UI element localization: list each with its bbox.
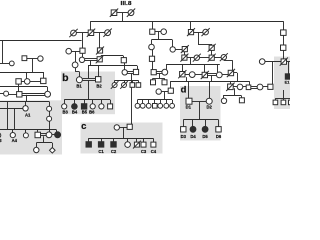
male 152 bbox=[149, 56, 154, 61]
sibship line a bottom bbox=[0, 129, 56, 131]
affected female a bbox=[55, 132, 61, 138]
couple line edge bbox=[0, 63, 10, 65]
female D2 bbox=[206, 98, 212, 104]
couple line row81 b bbox=[30, 81, 41, 83]
drop C2 bbox=[113, 138, 115, 142]
drop 224 bbox=[223, 96, 225, 98]
paternal stack link bbox=[18, 84, 20, 92]
svg-text:B6: B6 bbox=[89, 110, 95, 115]
male ancestor left bbox=[22, 56, 27, 61]
consanguineous couple 204=219 bbox=[208, 74, 217, 76]
deceased male row51 right bbox=[96, 47, 104, 55]
couple line A1 bbox=[0, 108, 23, 110]
svg-text:C4: C4 bbox=[151, 149, 157, 154]
descent e children bbox=[283, 90, 285, 98]
drop C1 bbox=[101, 138, 103, 142]
descent c couple bbox=[123, 127, 125, 138]
drop to A1 bbox=[25, 102, 27, 106]
drop 148 bbox=[148, 100, 150, 104]
svg-text:B5: B5 bbox=[82, 110, 88, 115]
deceased male 204 bbox=[201, 71, 209, 79]
descent row51 couple bbox=[75, 51, 77, 62]
couple line 158-170 bbox=[162, 91, 169, 93]
deceased male II-1 bbox=[87, 29, 95, 37]
svg-text:B4: B4 bbox=[72, 110, 78, 115]
deceased female y85 no2 bbox=[120, 81, 128, 89]
svg-text:D1: D1 bbox=[186, 105, 192, 110]
drop to II-9 bbox=[283, 22, 285, 30]
descent D couple bbox=[199, 101, 201, 119]
couple line 196-211 bbox=[200, 57, 210, 59]
female B1 bbox=[76, 77, 82, 83]
drop to 170 male bbox=[170, 81, 172, 88]
male e child1 bbox=[273, 100, 278, 105]
male row81 right bbox=[41, 78, 46, 83]
consanguineous couple a bbox=[41, 134, 47, 136]
drop 138 bbox=[138, 80, 140, 82]
male 170 bbox=[168, 88, 173, 93]
descent row60 couple bbox=[90, 60, 92, 66]
descent a bottom couple bbox=[43, 136, 45, 143]
sibship a last bbox=[36, 142, 52, 144]
male e child2 bbox=[281, 100, 286, 105]
female c mother bbox=[114, 125, 119, 130]
female 224 bbox=[221, 98, 226, 103]
female a edge cut bbox=[0, 133, 1, 138]
female 137 bbox=[135, 103, 140, 108]
descent II-4 couple bbox=[158, 32, 160, 40]
female 158 bbox=[156, 89, 161, 94]
female chain top bbox=[47, 106, 52, 111]
drop to 204 bbox=[204, 64, 206, 72]
deceased male 182 bbox=[178, 70, 186, 78]
drop couple II1-sp1 bbox=[82, 33, 84, 48]
couple line row51 bbox=[72, 51, 80, 53]
svg-text:D5: D5 bbox=[202, 134, 208, 139]
stack link 184 bbox=[184, 52, 186, 55]
drop girl 172 bbox=[172, 40, 174, 47]
deceased male I-1 bbox=[110, 9, 118, 17]
sibship line c bbox=[89, 138, 154, 140]
couple line 211-223 bbox=[214, 57, 221, 59]
female 142 bbox=[140, 103, 145, 108]
male c father bbox=[127, 124, 132, 129]
couple line 283-edge bbox=[287, 61, 291, 63]
couple line II left-b bbox=[94, 32, 105, 34]
sibship line generation II bbox=[90, 21, 284, 23]
drop to D2 bbox=[209, 81, 211, 98]
consanguineous couple 124=136 bbox=[127, 72, 133, 74]
drop e1 bbox=[275, 98, 277, 100]
descent 153 couple bbox=[159, 73, 161, 78]
female row65 bbox=[72, 62, 78, 68]
male 164 son bbox=[162, 80, 167, 85]
drop e2 bbox=[283, 98, 285, 100]
drop 124 bbox=[124, 80, 126, 82]
svg-text:D3: D3 bbox=[181, 134, 187, 139]
long sibship line left bbox=[0, 40, 82, 42]
male 270 bbox=[268, 84, 273, 89]
stack link 211 bbox=[211, 50, 213, 55]
chain link bbox=[49, 111, 51, 116]
svg-text:D4: D4 bbox=[190, 134, 196, 139]
descent ancestors left bbox=[32, 59, 34, 72]
consanguineous couple line row94 bbox=[22, 94, 45, 96]
svg-text:A4: A4 bbox=[12, 138, 18, 143]
couple a to affected bbox=[52, 134, 55, 136]
stack link 151 to son bbox=[152, 50, 154, 56]
couple line row81 a bbox=[21, 81, 24, 83]
female a child2 bbox=[23, 133, 28, 138]
line to cousin branch bbox=[101, 55, 123, 57]
drop son 164 bbox=[164, 78, 166, 80]
dogleg 230 v bbox=[237, 73, 239, 81]
long descent to family c father bbox=[131, 73, 133, 124]
drop 142 bbox=[142, 100, 144, 104]
couple line D1 D2 bbox=[192, 101, 206, 103]
affected female D4 bbox=[190, 126, 196, 132]
chain link 2 bbox=[49, 121, 51, 132]
deceased female II spouse1 bbox=[69, 29, 77, 37]
male D6 bbox=[216, 127, 221, 132]
couple line c parents bbox=[120, 127, 128, 129]
female 260 bbox=[257, 84, 263, 90]
couple line 260-270 bbox=[263, 86, 268, 88]
drop 160 bbox=[160, 100, 162, 104]
drop to 164 wife bbox=[166, 64, 168, 69]
affected female B4 bbox=[72, 104, 78, 110]
drop to male 136 bbox=[137, 66, 139, 70]
family box c (shaded) bbox=[81, 123, 163, 154]
stack link II9 to son bbox=[283, 35, 285, 45]
sibship line y64 bbox=[166, 64, 220, 66]
descent 182 couple bbox=[186, 77, 188, 81]
drop to II-4 bbox=[152, 22, 154, 30]
svg-text:C3: C3 bbox=[141, 149, 147, 154]
female 164 bbox=[162, 69, 168, 75]
sibship line a top bbox=[0, 101, 49, 103]
male D3 bbox=[181, 127, 186, 132]
affected female D5 bbox=[202, 126, 208, 132]
affected male C2 bbox=[111, 142, 116, 147]
svg-text:E1: E1 bbox=[285, 79, 290, 84]
drop 114 bbox=[114, 80, 116, 82]
male y85 no4 bbox=[136, 83, 141, 88]
drop B5 bbox=[84, 100, 86, 104]
female 172b bbox=[170, 103, 175, 108]
drop to B2 bbox=[98, 66, 100, 77]
family box d (shaded) bbox=[180, 86, 221, 141]
male a child3 bbox=[35, 132, 41, 138]
male e child3 bbox=[289, 100, 294, 105]
male 283 mid bbox=[281, 45, 286, 50]
svg-text:D2: D2 bbox=[207, 105, 213, 110]
B1 dogleg h bbox=[75, 71, 79, 73]
male row51 bbox=[80, 48, 85, 53]
B1 dogleg v2 bbox=[79, 72, 81, 77]
couple line 219-230 bbox=[222, 74, 228, 76]
drop to female 27 bbox=[26, 72, 28, 79]
male cousin bbox=[121, 58, 126, 63]
svg-text:A1: A1 bbox=[25, 112, 31, 117]
female edge row94 bbox=[4, 91, 9, 96]
male C3 bbox=[141, 142, 146, 147]
female a chain bottom bbox=[46, 132, 52, 138]
drop edge couple bbox=[288, 62, 290, 74]
sibship line d bbox=[183, 119, 218, 121]
affected male C1 bbox=[98, 142, 103, 147]
female 262 bbox=[259, 59, 265, 65]
female cousin wife bbox=[122, 70, 127, 75]
female c bbox=[125, 142, 131, 148]
couple line 240-248 bbox=[243, 86, 247, 88]
couple line ancestors left bbox=[27, 58, 38, 60]
svg-text:C1: C1 bbox=[98, 149, 104, 154]
svg-text:B2: B2 bbox=[96, 84, 102, 89]
drop a child3 bbox=[37, 130, 39, 133]
drop to B couple bbox=[88, 66, 90, 79]
male row94 bbox=[17, 92, 22, 97]
descent row94 couple bbox=[26, 95, 28, 102]
couple line I bbox=[117, 12, 128, 14]
couple line 172-184 bbox=[175, 49, 182, 51]
sibship line y96 bbox=[223, 95, 241, 97]
deceased male 211 lower bbox=[208, 54, 216, 62]
drop girl 151 bbox=[151, 40, 153, 45]
drop a child4 bbox=[56, 130, 58, 132]
female left edge bbox=[9, 61, 14, 66]
descent 230=240 couple bbox=[234, 88, 236, 95]
deceased female y85 no1 bbox=[111, 81, 119, 89]
sibship line y100 bbox=[138, 99, 173, 101]
dogleg II6 v1 bbox=[198, 32, 200, 44]
deceased male c bbox=[133, 141, 141, 149]
female row94 right bbox=[45, 91, 51, 97]
drop cousin male bbox=[123, 56, 125, 58]
couple line II right bbox=[194, 32, 203, 34]
drop to 230 upper bbox=[232, 60, 234, 70]
descent 196=211 couple bbox=[190, 58, 192, 65]
stack link 283 bbox=[283, 50, 285, 59]
line to 230 upper bbox=[224, 60, 233, 62]
deceased female 223 bbox=[220, 53, 228, 61]
sibship line y78 bbox=[153, 78, 165, 80]
male 153 bbox=[151, 70, 156, 75]
male row81 left bbox=[16, 79, 21, 84]
drop to 230 lower bbox=[230, 81, 232, 84]
drop 172 bbox=[172, 100, 174, 104]
sibship line y80 bbox=[115, 80, 139, 82]
drop D5 bbox=[205, 120, 207, 127]
female 240 bbox=[237, 84, 243, 90]
couple line 184-196 bbox=[187, 57, 194, 59]
male 248 bbox=[246, 85, 251, 90]
female row81 bbox=[24, 79, 30, 85]
consanguineous couple B1 B2 bbox=[83, 79, 96, 81]
male b child6 bbox=[108, 104, 113, 109]
drop diamond sib1 bbox=[36, 143, 38, 147]
female 219 bbox=[216, 72, 222, 78]
drop 154 bbox=[154, 100, 156, 104]
male 153 son bbox=[151, 80, 156, 85]
male 154 bbox=[153, 104, 158, 109]
deceased female 196 bbox=[193, 54, 201, 62]
drop a child1 bbox=[12, 130, 14, 133]
sibship line y81 bbox=[170, 81, 249, 83]
sibship line b bbox=[64, 99, 110, 101]
couple line 262-283 bbox=[265, 61, 281, 63]
family box a (shaded) bbox=[0, 100, 62, 154]
deceased female II-6 wife bbox=[202, 28, 210, 36]
descent 158 couple bbox=[164, 92, 166, 100]
svg-text:B3: B3 bbox=[63, 110, 69, 115]
drop B3 bbox=[64, 100, 66, 104]
drop C4 bbox=[153, 138, 155, 142]
stack link 152 to son bbox=[152, 61, 154, 69]
drop c0 bbox=[88, 138, 90, 142]
svg-text:III.8: III.8 bbox=[121, 1, 132, 7]
couple line 230-240 bbox=[233, 86, 237, 88]
drop to 248 male bbox=[249, 81, 251, 85]
drop to chain girl bbox=[49, 102, 51, 107]
couple line 192-204 bbox=[195, 74, 202, 76]
svg-text:D6: D6 bbox=[216, 134, 222, 139]
drop to II-6 bbox=[190, 22, 192, 30]
female b child5 bbox=[99, 104, 104, 109]
B1 dogleg v1 bbox=[75, 68, 77, 72]
drop 166 bbox=[166, 100, 168, 104]
drop c4 bbox=[136, 138, 138, 142]
deceased male 283 lower bbox=[280, 58, 288, 66]
female B3 bbox=[62, 104, 67, 109]
consanguineous couple row60 bbox=[85, 59, 97, 61]
female row60 bbox=[79, 57, 84, 62]
drop D3 bbox=[183, 120, 185, 127]
descent 262 couple bbox=[272, 62, 274, 85]
female A4 bbox=[10, 133, 15, 138]
drop to D1 bbox=[188, 81, 190, 98]
drop b child5 bbox=[101, 100, 103, 104]
descent A1 children bbox=[14, 108, 16, 129]
affected male B5 bbox=[81, 104, 86, 109]
descent 204=219 couple bbox=[211, 76, 213, 82]
couple line II left-a bbox=[76, 32, 88, 34]
drop D6 bbox=[218, 120, 220, 127]
drop to female 47 bbox=[47, 87, 49, 92]
sibship line y72 bbox=[0, 72, 43, 74]
svg-text:B1: B1 bbox=[76, 84, 82, 89]
male D1 bbox=[186, 98, 192, 104]
drop diamond sib2 bbox=[52, 143, 54, 148]
male C4 bbox=[151, 142, 156, 147]
female 166 bbox=[164, 103, 169, 108]
female row51 bbox=[66, 48, 72, 54]
female chain mid bbox=[47, 116, 52, 121]
deceased male 184 lower bbox=[180, 54, 188, 62]
sibship line y66 bbox=[88, 65, 137, 67]
descent I bbox=[122, 13, 124, 22]
couple line II mid bbox=[155, 31, 161, 33]
dogleg II6 v2 bbox=[211, 44, 213, 45]
affected male c first bbox=[86, 142, 91, 147]
male B2 bbox=[96, 77, 101, 82]
deceased male 230 upper bbox=[227, 69, 235, 77]
female 172 bbox=[170, 47, 175, 52]
svg-text:C2: C2 bbox=[111, 149, 117, 154]
female 192 bbox=[189, 72, 195, 78]
sibship line e bbox=[275, 98, 290, 100]
deceased male 184 bbox=[181, 45, 189, 53]
affected male E1 bbox=[285, 74, 290, 79]
drop D4 bbox=[192, 120, 194, 127]
long drop left bbox=[7, 102, 9, 130]
couple line row94 bbox=[9, 94, 17, 96]
drop c3 bbox=[127, 138, 129, 142]
sibship line y87 bbox=[0, 86, 47, 88]
couple line 182-192 bbox=[185, 74, 189, 76]
drop to male 43 bbox=[43, 72, 45, 78]
deceased male row60 bbox=[96, 55, 104, 63]
deceased female I-2 bbox=[127, 9, 135, 17]
drop to 219 bbox=[217, 64, 219, 72]
deceased male 211 upper bbox=[208, 44, 216, 52]
sibship line y40 bbox=[151, 39, 172, 41]
female 151 bbox=[149, 44, 155, 50]
deceased male 230 lower bbox=[226, 83, 234, 91]
svg-text:d: d bbox=[181, 84, 187, 95]
svg-text:b: b bbox=[62, 72, 68, 84]
descent B couple bbox=[88, 80, 90, 99]
drop C3 bbox=[143, 138, 145, 142]
male II-9 bbox=[281, 30, 287, 36]
male 241 bbox=[239, 98, 244, 103]
female A1 bbox=[23, 106, 28, 111]
female a last bbox=[34, 147, 39, 152]
stack link cousin bbox=[124, 63, 126, 70]
drop e3 bbox=[290, 98, 292, 100]
female ancestor left bbox=[38, 56, 43, 61]
family box b (shaded) bbox=[61, 72, 115, 115]
drop 241 bbox=[241, 96, 243, 98]
drop b child6 bbox=[110, 100, 112, 104]
drop B4 bbox=[74, 100, 76, 104]
deceased male II-6 bbox=[187, 28, 195, 36]
drop to 182 bbox=[182, 64, 184, 71]
drop B6 bbox=[92, 100, 94, 104]
stack link male to female60 bbox=[82, 53, 84, 57]
drop son 153 bbox=[152, 78, 154, 80]
svg-text:c: c bbox=[81, 121, 86, 132]
drop left edge child bbox=[2, 41, 4, 63]
male 136 bbox=[133, 69, 138, 74]
male II-4 bbox=[150, 29, 155, 34]
female B6 bbox=[90, 104, 95, 109]
deceased female II spouse2 bbox=[103, 29, 111, 37]
drop 132 bbox=[132, 80, 134, 82]
female 148 bbox=[146, 103, 151, 108]
drop 137 bbox=[137, 100, 139, 104]
unknown sex diamond bbox=[50, 148, 56, 154]
female 160 bbox=[158, 103, 163, 108]
family box e (shaded) bbox=[274, 57, 290, 110]
drop couple II1-sp2 bbox=[99, 33, 101, 48]
female II-4 wife bbox=[161, 29, 167, 35]
dogleg II6 h bbox=[198, 44, 212, 46]
dogleg 230 h bbox=[234, 72, 238, 74]
couple line edge row94 bbox=[0, 93, 4, 95]
drop a child2 bbox=[25, 130, 27, 133]
drop to II-1 bbox=[90, 22, 92, 30]
